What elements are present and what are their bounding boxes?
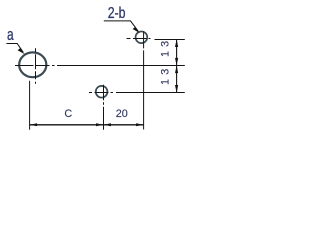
arrowhead of leader a: [18, 48, 25, 54]
extension line right of top hole b for dim 13: [155, 39, 185, 41]
center line vertical of hole a: [35, 48, 37, 84]
arrowhead right at x=144 (20): [136, 123, 144, 126]
svg-text:a: a: [7, 26, 14, 44]
dimension line vertical right (two 13 dims): [176, 40, 178, 93]
svg-text:13: 13: [160, 65, 172, 85]
center line horizontal of hole a (extends right as extension line for 13 dims): [15, 65, 185, 67]
center line horizontal of middle hole b (extends right as extension line): [89, 92, 185, 94]
leader line of label a: [6, 44, 23, 53]
arrowhead left at x=103.7 (20): [104, 123, 112, 126]
center line vertical of top hole b, continues down as extension line for dim 20: [143, 31, 145, 129]
svg-text:13: 13: [160, 37, 172, 57]
leader line of label 2-b: [104, 21, 138, 31]
hole a : large circle: [19, 52, 46, 77]
arrowhead down at y=92.3 (second 13): [175, 85, 178, 93]
arrowhead up at y=65.6 (second 13): [175, 66, 178, 74]
arrowhead right at x=103.7 (C): [96, 123, 104, 126]
arrowhead down at y=65.6 (first 13): [175, 58, 178, 66]
center line horizontal of top hole b: [127, 38, 151, 40]
hole b top : small circle: [136, 31, 148, 43]
center line vertical of middle hole b, continues down as extension line for dims C/20: [103, 85, 105, 130]
arrowhead left at x=29.8 (C): [30, 123, 37, 126]
arrowhead of leader 2-b: [133, 27, 140, 33]
svg-text:C: C: [64, 108, 72, 120]
arrowhead up at top of first 13: [175, 39, 178, 47]
svg-text:20: 20: [116, 108, 128, 120]
extension line from hole a down to dimension C: [29, 81, 31, 130]
dimension line horizontal bottom (C and 20): [30, 124, 144, 126]
svg-text:2-b: 2-b: [108, 5, 126, 23]
hole b middle : small circle: [96, 86, 108, 98]
